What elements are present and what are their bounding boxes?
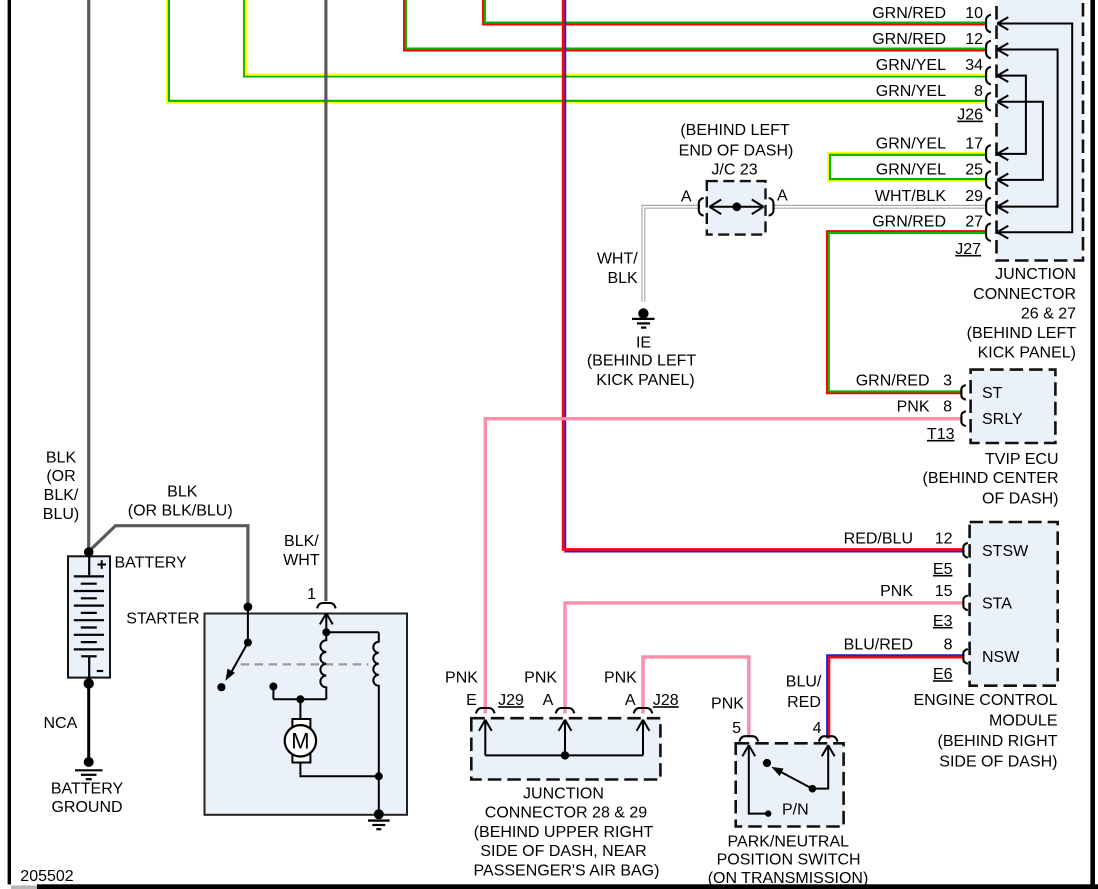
junction connector 28 & 29 box (471, 718, 660, 779)
label A right J28 (625, 692, 679, 709)
starter box (205, 614, 408, 815)
label J27 (955, 241, 981, 258)
motor M starter (285, 699, 316, 762)
svg-text:(BEHIND LEFT: (BEHIND LEFT (680, 122, 790, 139)
label E6 (933, 666, 953, 683)
svg-text:GRN/YEL: GRN/YEL (876, 161, 946, 178)
svg-text:NSW: NSW (982, 649, 1020, 666)
label BLU/RED vertical (786, 674, 822, 712)
wire WHT/BLK J/C 23 to J27 pin 29 (772, 205, 987, 209)
pin A mid junction connector 28/29 (556, 708, 575, 755)
junction connector J/C 23 (707, 181, 766, 235)
svg-text:GRN/RED: GRN/RED (872, 31, 946, 48)
svg-text:J27: J27 (955, 241, 981, 258)
svg-text:BLK: BLK (46, 449, 77, 466)
svg-text:IE: IE (636, 334, 651, 351)
label J/C 23 location (679, 122, 794, 179)
battery minus terminal (97, 670, 104, 672)
wire BLK battery to starter switch (89, 526, 248, 606)
svg-text:RED/BLU: RED/BLU (844, 530, 913, 547)
pin 4 P/N switch (813, 736, 838, 788)
busbar junction connector 28/29 (485, 754, 643, 756)
ground starter case (368, 809, 390, 829)
label BATTERY GROUND (51, 780, 124, 816)
svg-text:1: 1 (307, 586, 316, 603)
wire GRN/RED to J26 pin 10 (483, 0, 987, 24)
svg-text:A: A (681, 188, 692, 205)
wire PNK J28 pin A to P/N switch pin 5 (643, 657, 749, 738)
label pin 1 (307, 586, 316, 603)
label J26 (957, 107, 983, 124)
label GRN/YEL 25 (876, 161, 983, 178)
wire WHT/BLK J/C 23 to IE ground (643, 207, 700, 302)
svg-text:BLU): BLU) (43, 506, 79, 523)
svg-text:END OF DASH): END OF DASH) (679, 142, 794, 159)
pin 10 junction connector 26/27 (986, 15, 1008, 33)
label pin 5 (732, 720, 741, 737)
svg-text:PNK: PNK (524, 669, 557, 686)
svg-text:PNK: PNK (897, 399, 930, 416)
svg-text:MODULE: MODULE (989, 713, 1057, 730)
wire coil1 to motor node (273, 688, 326, 699)
svg-text:PNK: PNK (604, 669, 637, 686)
pin 29 junction connector 26/27 (986, 198, 1008, 216)
label GRN/RED 27 (872, 214, 983, 231)
svg-text:BATTERY: BATTERY (115, 554, 188, 571)
svg-text:PNK: PNK (711, 696, 744, 713)
svg-text:A: A (777, 187, 788, 204)
svg-text:POSITION SWITCH: POSITION SWITCH (717, 852, 861, 869)
label WHT/BLK 29 (875, 188, 983, 205)
wire PNK J28 pin A to ECM STA (565, 603, 963, 714)
svg-text:8: 8 (943, 399, 952, 416)
junction dot starter feed (244, 603, 253, 612)
svg-text:(BEHIND UPPER RIGHT: (BEHIND UPPER RIGHT (474, 824, 654, 841)
battery (68, 556, 110, 677)
label GRN/YEL 34 (876, 57, 983, 74)
label NCA (44, 715, 78, 732)
svg-text:RED: RED (787, 694, 821, 711)
label PNK pin A right (604, 669, 637, 686)
label SRLY (982, 411, 1023, 428)
battery plus terminal (97, 560, 106, 569)
label PNK 15 (880, 583, 953, 600)
label STA (982, 595, 1012, 612)
wire RED/BLU to ECM STSW (563, 0, 962, 552)
svg-text:34: 34 (965, 57, 983, 74)
svg-text:STA: STA (982, 595, 1012, 612)
svg-text:GROUND: GROUND (51, 799, 122, 816)
busbar J26 pins 8-25 (997, 102, 1043, 180)
label ST (982, 385, 1003, 402)
label E3 (933, 613, 953, 630)
pin 5 P/N switch (740, 736, 768, 813)
svg-text:PASSENGER'S AIR BAG): PASSENGER'S AIR BAG) (474, 862, 660, 879)
svg-text:GRN/RED: GRN/RED (872, 5, 946, 22)
pin 8 TVIP SRLY (961, 411, 965, 426)
label GRN/RED 3 (856, 372, 952, 389)
label A left (681, 188, 692, 205)
label BLK (OR BLK/BLU) horizontal (128, 484, 233, 520)
svg-text:SRLY: SRLY (982, 411, 1023, 428)
svg-text:WHT/BLK: WHT/BLK (875, 188, 946, 205)
svg-text:29: 29 (965, 188, 983, 205)
svg-text:12: 12 (965, 31, 983, 48)
svg-text:SIDE OF DASH): SIDE OF DASH) (939, 754, 1057, 771)
J/C 23 pin A right (769, 198, 774, 216)
junction dot motor top (296, 695, 304, 703)
svg-text:NCA: NCA (44, 715, 78, 732)
P/N switch upper contact dot (763, 759, 771, 767)
pin 25 junction connector 26/27 (986, 171, 1008, 189)
svg-text:A: A (625, 692, 636, 709)
junction dot motor/coil2 (375, 772, 383, 780)
svg-text:ENGINE CONTROL: ENGINE CONTROL (913, 692, 1057, 709)
pin 15 ECM STA (963, 596, 967, 611)
svg-text:15: 15 (935, 583, 953, 600)
svg-text:8: 8 (974, 83, 983, 100)
wire BLK battery feed (87, 0, 90, 551)
label STSW (982, 543, 1029, 560)
label A middle (543, 692, 554, 709)
wire GRN/YEL J26 pin 17 to pin 25 (828, 153, 987, 181)
svg-text:27: 27 (965, 214, 983, 231)
label PNK pin 5 (711, 696, 744, 713)
J/C 23 pin A left (699, 198, 704, 216)
label engine control module location (913, 692, 1057, 771)
label E5 (933, 561, 953, 578)
label IE location (587, 334, 697, 389)
wire BLK/WHT to starter pin 1 (324, 0, 327, 601)
label BLK (OR BLK/BLU) left (43, 449, 79, 523)
svg-text:M: M (291, 729, 309, 754)
label GRN/RED 12 (872, 31, 983, 48)
svg-text:J/C 23: J/C 23 (711, 162, 757, 179)
label A right (777, 187, 788, 204)
svg-text:JUNCTION: JUNCTION (995, 266, 1076, 283)
label BATTERY (115, 554, 188, 571)
svg-text:BLU/RED: BLU/RED (844, 636, 913, 653)
svg-text:WHT/: WHT/ (597, 250, 638, 267)
svg-text:WHT: WHT (283, 552, 320, 569)
label GRN/RED 10 (872, 5, 983, 22)
label junction connector 28 & 29 (474, 785, 660, 879)
svg-text:17: 17 (965, 135, 983, 152)
starter contact stub dot (269, 683, 277, 691)
busbar J26 pins 10-27 (997, 24, 1072, 233)
ground BATTERY GROUND (75, 757, 103, 779)
junction connector 26 & 27 box (997, 0, 1084, 261)
svg-text:25: 25 (965, 161, 983, 178)
label STARTER (126, 610, 199, 627)
label pin 4 (813, 720, 822, 737)
svg-text:TVIP ECU: TVIP ECU (985, 451, 1059, 468)
label E J29 (466, 692, 524, 709)
starter pin 1 connector (317, 603, 336, 632)
label GRN/YEL 17 (876, 135, 983, 152)
svg-text:3: 3 (943, 372, 952, 389)
wire GRN/YEL to J26 pin 8 (167, 0, 987, 103)
svg-text:E6: E6 (933, 666, 953, 683)
label diagram number 205502 (20, 868, 73, 885)
pin 12 junction connector 26/27 (986, 41, 1008, 59)
svg-text:J29: J29 (498, 692, 524, 709)
starter solenoid dashed link (241, 663, 369, 665)
svg-text:BLU/: BLU/ (786, 674, 822, 691)
pin 3 TVIP ST (961, 385, 965, 400)
junction dot busbar 28/29 (561, 751, 569, 759)
svg-text:4: 4 (813, 720, 822, 737)
starter coil 2 (hold-in winding) (373, 632, 379, 776)
svg-text:STSW: STSW (982, 543, 1029, 560)
svg-text:J28: J28 (653, 692, 679, 709)
svg-text:205502: 205502 (20, 868, 73, 885)
svg-text:GRN/RED: GRN/RED (872, 214, 946, 231)
svg-text:BATTERY: BATTERY (51, 780, 124, 797)
svg-text:A: A (543, 692, 554, 709)
svg-text:(OR BLK/BLU): (OR BLK/BLU) (128, 503, 233, 520)
svg-text:CONNECTOR: CONNECTOR (973, 286, 1076, 303)
svg-text:PNK: PNK (445, 669, 478, 686)
label TVIP ECU location (922, 451, 1058, 507)
label RED/BLU 12 (844, 530, 953, 547)
svg-text:(BEHIND CENTER: (BEHIND CENTER (922, 470, 1058, 487)
label BLK/WHT (283, 533, 320, 569)
svg-text:E5: E5 (933, 561, 953, 578)
label park/neutral position switch (708, 833, 869, 887)
busbar J26 pins 12-29 (997, 50, 1057, 207)
engine control module box (970, 522, 1058, 686)
svg-text:5: 5 (732, 720, 741, 737)
svg-text:KICK PANEL): KICK PANEL) (596, 372, 694, 389)
pin 27 junction connector 26/27 (986, 223, 1008, 241)
svg-text:P/N: P/N (782, 802, 809, 819)
svg-text:ST: ST (982, 385, 1003, 402)
pin E junction connector 28/29 (476, 708, 495, 755)
svg-text:8: 8 (944, 636, 953, 653)
starter switch (217, 607, 252, 691)
wire coil2 node to starter ground (378, 776, 380, 814)
P/N switch blade (771, 767, 816, 793)
svg-text:OF DASH): OF DASH) (982, 491, 1058, 508)
svg-text:(BEHIND LEFT: (BEHIND LEFT (587, 353, 697, 370)
label T13 (927, 426, 955, 443)
svg-text:PARK/NEUTRAL: PARK/NEUTRAL (728, 833, 850, 850)
svg-text:GRN/RED: GRN/RED (856, 372, 930, 389)
svg-text:26 & 27: 26 & 27 (1021, 306, 1076, 323)
svg-text:GRN/YEL: GRN/YEL (876, 83, 946, 100)
svg-text:BLK/: BLK/ (44, 487, 79, 504)
svg-text:10: 10 (965, 5, 983, 22)
pin A right junction connector 28/29 (634, 708, 653, 755)
ground IE (632, 308, 655, 327)
svg-text:PNK: PNK (880, 583, 913, 600)
wire GRN/YEL to J26 pin 34 (244, 0, 987, 77)
svg-text:BLK/: BLK/ (284, 533, 319, 550)
svg-text:KICK PANEL): KICK PANEL) (978, 345, 1076, 362)
svg-text:(OR: (OR (46, 468, 75, 485)
svg-text:BLK: BLK (167, 484, 198, 501)
label PNK pin E (445, 669, 478, 686)
wire GRN/RED J27 pin 27 to TVIP ST (827, 231, 987, 393)
TVIP ECU box (971, 370, 1056, 443)
svg-text:SIDE OF DASH, NEAR: SIDE OF DASH, NEAR (480, 843, 646, 860)
svg-text:T13: T13 (927, 426, 955, 443)
junction dot battery positive (84, 547, 94, 557)
P/N switch lower contact dot (765, 810, 771, 816)
pin 12 ECM STSW (963, 543, 967, 558)
label P/N (782, 802, 809, 819)
label PNK pin A middle (524, 669, 557, 686)
wire PNK J29 pin E to TVIP SRLY (485, 419, 962, 714)
label PNK 8 (897, 399, 953, 416)
svg-text:JUNCTION: JUNCTION (523, 785, 604, 802)
label BLU/RED 8 (844, 636, 953, 653)
busbar J26 pins 34-17 (997, 76, 1026, 154)
svg-text:J26: J26 (957, 107, 983, 124)
label WHT/BLK (597, 250, 638, 287)
label GRN/YEL 8 (876, 83, 983, 100)
svg-text:(BEHIND LEFT: (BEHIND LEFT (967, 325, 1077, 342)
wire motor to starter ground (300, 763, 378, 777)
junction dot starter pin1 node (322, 628, 330, 636)
svg-text:STARTER: STARTER (126, 610, 199, 627)
wire NCA battery to ground (84, 678, 94, 758)
wire GRN/RED to J26 pin 12 (404, 0, 987, 50)
svg-text:(BEHIND RIGHT: (BEHIND RIGHT (938, 733, 1058, 750)
pin 8 ECM NSW (963, 649, 967, 664)
svg-text:12: 12 (935, 530, 953, 547)
svg-text:BLK: BLK (607, 270, 638, 287)
pin 8 junction connector 26/27 (986, 93, 1008, 111)
park/neutral position switch box (736, 743, 844, 826)
svg-text:CONNECTOR 28 & 29: CONNECTOR 28 & 29 (485, 805, 648, 822)
wire BLU/RED P/N switch pin 4 to ECM NSW (827, 655, 962, 738)
svg-text:E3: E3 (933, 613, 953, 630)
pin 17 junction connector 26/27 (986, 145, 1008, 163)
svg-text:GRN/YEL: GRN/YEL (876, 135, 946, 152)
svg-text:(ON TRANSMISSION): (ON TRANSMISSION) (708, 870, 869, 887)
label NSW (982, 649, 1020, 666)
svg-text:E: E (466, 692, 477, 709)
wire starter pin1 node to coil 2 (326, 631, 379, 633)
svg-text:GRN/YEL: GRN/YEL (876, 57, 946, 74)
starter coil 1 (pull-in winding) (320, 632, 326, 699)
label junction connector 26 & 27 (967, 266, 1077, 362)
pin 34 junction connector 26/27 (986, 67, 1008, 85)
